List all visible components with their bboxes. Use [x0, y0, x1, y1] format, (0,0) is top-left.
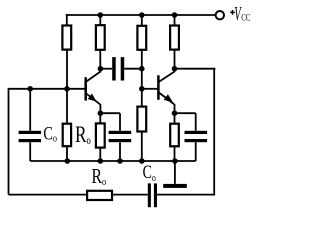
node Q2 base tee [139, 86, 145, 92]
node Q1 emitter [98, 110, 104, 116]
node ground rail at Ro1 [65, 158, 71, 164]
wire bottom mid segment [112, 194, 148, 196]
wire Ce2 bottom lead [195, 142, 197, 161]
resistor R2 [96, 25, 105, 50]
wire R2 top lead [99, 15, 101, 25]
resistor R3 [137, 26, 146, 50]
wire Ce1 top lead [119, 113, 121, 131]
node ground rail at Ce1 [117, 158, 123, 164]
wire Re1 top lead [99, 113, 101, 123]
svg-text:CC: CC [241, 13, 251, 23]
node ground rail at ground lead [172, 158, 178, 164]
node Q2 collector [172, 66, 178, 72]
wire Ro1 bottom lead [66, 146, 68, 161]
wire R2 bottom lead to Q1 collector [99, 50, 101, 69]
resistor Ro1 (left, labelled Ro) [63, 124, 71, 147]
wire R3 top lead [141, 15, 143, 26]
wire R2b bottom lead [141, 132, 143, 162]
wire emitter ground rail [30, 160, 196, 162]
wire Ce2 top lead [195, 113, 197, 131]
svg-text:Ro: Ro [92, 165, 107, 189]
node coupling to Q2 base column [139, 66, 145, 72]
svg-text:Co: Co [43, 122, 57, 144]
capacitor Ce2 [185, 131, 208, 142]
wire Q1 base wire [9, 88, 85, 90]
capacitor Co2 (bottom, labelled Co) [148, 183, 157, 207]
wire output right vertical [213, 69, 215, 195]
transistor Q2 [158, 69, 175, 114]
node ground rail at Re1 [98, 158, 104, 164]
node base wire at Co1 [27, 86, 33, 92]
node Q2 emitter [172, 110, 178, 116]
capacitor Ce1 [109, 131, 132, 142]
wire Q2 base node down to R2b [141, 89, 143, 107]
node base wire at R1/Ro1 [64, 86, 70, 92]
resistor Re2 [170, 124, 179, 147]
node top rail junction at R4 [172, 12, 178, 18]
svg-text:Ro: Ro [75, 123, 91, 148]
wire Ce1 bottom lead [119, 142, 121, 161]
wire Q2 emitter node to Ce2 [175, 112, 196, 114]
resistor R1 [62, 26, 71, 50]
resistor R4 [170, 26, 179, 50]
wire Q1 collector to C1 [100, 68, 112, 70]
wire bottom left segment [9, 194, 88, 196]
node top rail junction at R3 [139, 12, 145, 18]
transistor Q1 [86, 69, 101, 114]
wire ground lead [174, 161, 176, 184]
wire left input vertical [8, 88, 10, 195]
wire Q1 emitter node to Ce1 [100, 112, 120, 114]
wire Co1 top lead [29, 89, 31, 131]
wire Re2 top lead [174, 113, 176, 124]
node +Vcc terminal circle [216, 11, 224, 19]
capacitor Co1 (input, labelled Co) [19, 131, 41, 142]
wire R3 bottom lead to coupling node [141, 50, 143, 69]
capacitor C1 (interstage coupling) [112, 57, 124, 80]
label +Vcc [230, 1, 251, 25]
wire R1 top lead [66, 14, 68, 25]
wire R1 bottom lead to base node [66, 50, 68, 89]
wire coupling node down to Q2 base node [141, 69, 143, 89]
node ground rail at R2b [139, 158, 145, 164]
wire top supply rail [66, 14, 216, 16]
wire Q2 collector to output [175, 68, 216, 70]
wire Co1 bottom lead [29, 142, 31, 161]
wire R4 top lead [174, 15, 176, 26]
wire R4 bottom lead to Q2 collector [174, 50, 176, 69]
svg-text:Co: Co [143, 161, 156, 184]
wire Re1 bottom lead [99, 148, 101, 161]
resistor R2b (Q2 lower bias) [137, 107, 146, 132]
wire C1 to coupling node [124, 68, 142, 70]
wire bottom right segment [157, 194, 215, 196]
wire Ro1 top lead from base node [66, 89, 68, 124]
resistor Ro2 (bottom, labelled Ro) [87, 191, 112, 200]
ground [163, 184, 187, 188]
node Q1 collector [98, 66, 104, 72]
node top rail junction at R2 [98, 12, 104, 18]
wire Q2 base wire [142, 88, 158, 90]
wire Re2 bottom lead [174, 146, 176, 161]
resistor Re1 [96, 123, 105, 147]
